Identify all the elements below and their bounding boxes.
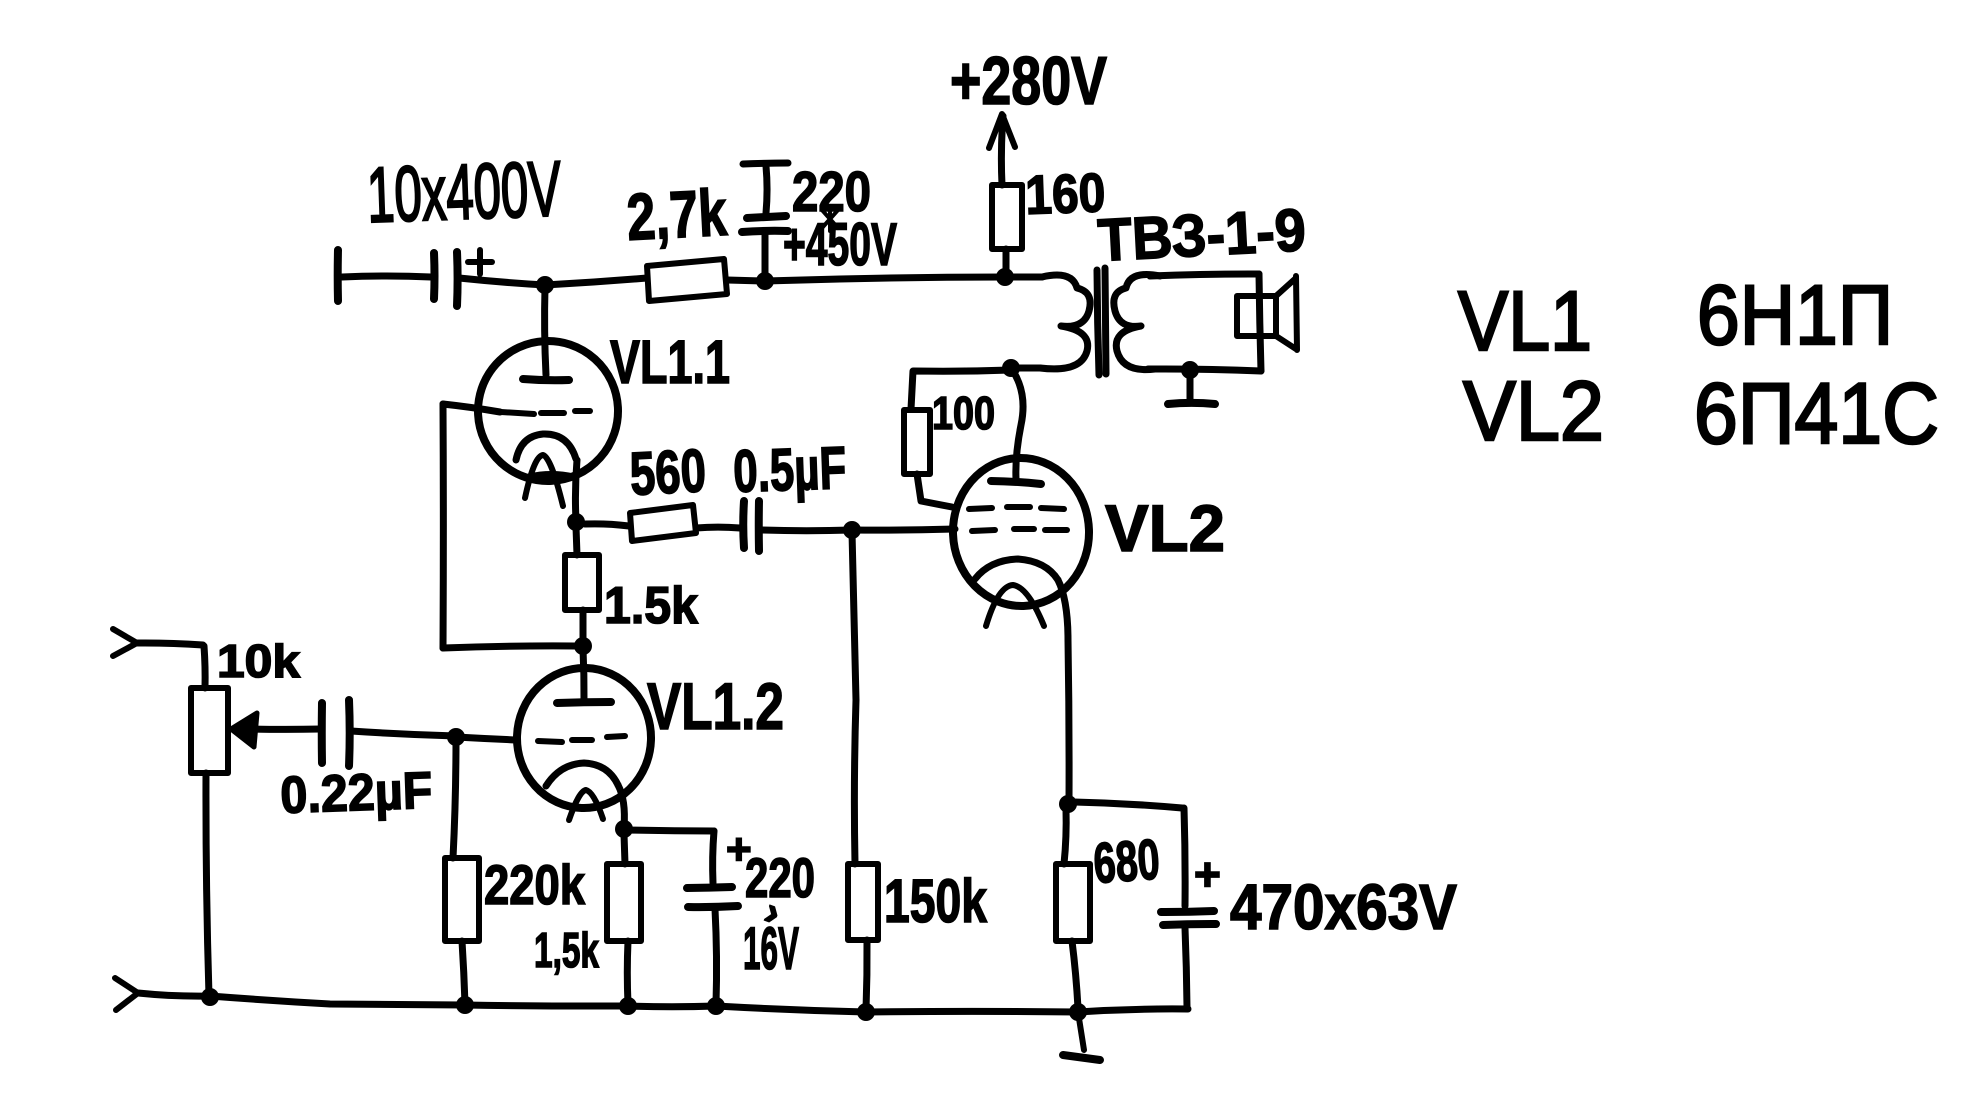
svg-text:VL1: VL1: [1458, 274, 1592, 368]
svg-text:VL2: VL2: [1463, 364, 1604, 458]
svg-text:16V: 16V: [743, 915, 799, 982]
svg-text:560: 560: [628, 436, 707, 508]
svg-text:10k: 10k: [217, 635, 300, 687]
svg-text:0.22µF: 0.22µF: [279, 762, 433, 825]
svg-text:+: +: [1194, 848, 1221, 900]
svg-text:+450V: +450V: [783, 211, 897, 278]
svg-text:1,5k: 1,5k: [534, 924, 600, 978]
svg-text:1.5k: 1.5k: [604, 577, 698, 635]
svg-text:220k: 220k: [484, 853, 586, 916]
svg-text:VL1.2: VL1.2: [647, 669, 784, 743]
svg-text:ТВЗ-1-9: ТВЗ-1-9: [1096, 196, 1307, 274]
svg-text:10x400V: 10x400V: [366, 144, 563, 239]
svg-text:VL1.1: VL1.1: [610, 328, 730, 396]
svg-text:470x63V: 470x63V: [1230, 871, 1457, 943]
svg-text:2,7k: 2,7k: [625, 175, 729, 254]
svg-text:160: 160: [1024, 161, 1106, 226]
svg-text:680: 680: [1091, 828, 1161, 896]
svg-text:6Н1П: 6Н1П: [1697, 268, 1893, 362]
svg-text:+280V: +280V: [950, 43, 1107, 119]
svg-text:0.5µF: 0.5µF: [732, 434, 847, 505]
svg-text:VL2: VL2: [1105, 491, 1225, 565]
svg-text:150k: 150k: [884, 867, 987, 935]
svg-text:100: 100: [932, 387, 995, 439]
svg-text:6П41С: 6П41С: [1694, 366, 1939, 462]
